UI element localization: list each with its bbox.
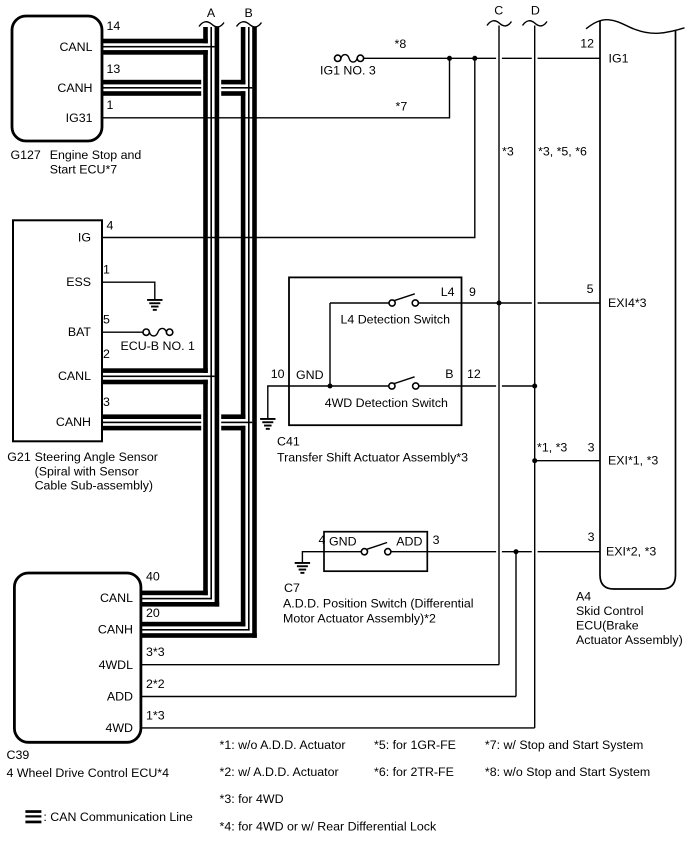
wire G127 CANH to bus B (triple line, crossing bus A) (102, 80, 252, 96)
wire bus A CANL (triple line) (203, 27, 219, 607)
footnote *8 (485, 765, 650, 779)
wire C39 CANL to bus A (triple line corner) (141, 591, 219, 607)
pin B label (445, 367, 453, 381)
connector G21 box (13, 220, 102, 441)
svg-text:ADD: ADD (107, 690, 133, 704)
svg-text:A4: A4 (576, 589, 591, 603)
svg-text:14: 14 (107, 19, 121, 33)
svg-text:3*3: 3*3 (146, 645, 165, 659)
svg-text:Engine Stop and: Engine Stop and (50, 148, 142, 162)
svg-text:*5: for 1GR-FE: *5: for 1GR-FE (374, 738, 456, 752)
wire IG from G21 pin 4 (102, 58, 475, 237)
junction dot L4 wire on C (497, 301, 502, 306)
footnote *6 (374, 765, 454, 779)
svg-text:*8: *8 (395, 37, 407, 51)
wire G127 CANL to bus A (triple line) (102, 39, 215, 55)
wire G21 CANL to bus A (triple line) (102, 368, 215, 384)
node B label (244, 6, 252, 20)
wire C39 CANH to bus B (triple line corner) (141, 622, 257, 638)
footnote *3 (220, 792, 284, 806)
svg-text:ECU-B NO. 1: ECU-B NO. 1 (121, 339, 195, 353)
pin 4WD label C39 (105, 721, 133, 735)
pin 40 label (146, 570, 160, 584)
svg-text:CANL: CANL (100, 591, 133, 605)
pin 1 label G127 (107, 98, 114, 112)
pin 12 label C41 (467, 367, 481, 381)
pin CANH label C39 (98, 622, 133, 636)
label C7 A.D.D. Position Switch (283, 581, 474, 626)
svg-text:4: 4 (107, 219, 114, 233)
label G127 Engine Stop and Start ECU*7 (11, 148, 142, 176)
svg-text:GND: GND (329, 535, 357, 549)
svg-text:ESS: ESS (66, 275, 91, 289)
footnote *5 (374, 738, 456, 752)
label L4 Detection Switch (341, 312, 451, 326)
connector G127 box (12, 16, 102, 141)
pin 12 label A4 (580, 37, 594, 51)
fuse IG1 NO.3 (335, 55, 364, 63)
pin 2 label G21 (103, 347, 110, 361)
svg-text:13: 13 (107, 62, 121, 76)
pin BAT label G21 (68, 325, 92, 339)
svg-text:1: 1 (103, 263, 110, 277)
svg-text:(Spiral with Sensor: (Spiral with Sensor (35, 464, 139, 478)
pin CANH label G21 (56, 415, 91, 429)
svg-text:L4 Detection Switch: L4 Detection Switch (341, 312, 451, 326)
svg-text:4WD: 4WD (105, 721, 133, 735)
footnote *4 (220, 820, 437, 834)
switch ADD position (302, 543, 600, 563)
wire GND C41 to ground (268, 386, 389, 418)
pin EXI*1, *3 label A4 (608, 454, 658, 468)
svg-text:12: 12 (580, 37, 594, 51)
svg-text:EXI*1, *3: EXI*1, *3 (608, 454, 658, 468)
junction dot B wire on D (532, 384, 537, 389)
node C label (494, 3, 503, 17)
ground ESS (147, 299, 162, 311)
svg-text:C39: C39 (7, 748, 30, 762)
pin GND label C41 (296, 368, 324, 382)
wire EXI*1 from D to A4 pin 3 (535, 460, 600, 462)
svg-text:IG1 NO. 3: IG1 NO. 3 (320, 64, 376, 78)
footnote *2 (220, 765, 339, 779)
wire bus B CANH (triple line) (241, 27, 257, 638)
pin ESS label G21 (66, 275, 91, 289)
pin IG31 label G127 (66, 111, 93, 125)
pin IG label G21 (78, 231, 91, 245)
pin ADD label C7 (396, 535, 422, 549)
label A4 Skid Control ECU (576, 589, 683, 647)
node A label (207, 6, 216, 20)
svg-text:L4: L4 (441, 285, 455, 299)
pin EXI*2, *3 label A4 (606, 545, 656, 559)
pin CANL label C39 (100, 591, 133, 605)
svg-text:D: D (531, 3, 540, 17)
svg-text:C41: C41 (277, 435, 300, 449)
label *8 (395, 37, 407, 51)
wire BAT to fuse (102, 331, 143, 333)
svg-text:Skid Control: Skid Control (576, 604, 644, 618)
footnote *1 (220, 738, 346, 752)
svg-text:: CAN Communication Line: : CAN Communication Line (43, 810, 193, 824)
svg-text:12: 12 (467, 367, 481, 381)
pin 1 label G21 (103, 263, 110, 277)
wire ADD riser vertical (515, 552, 517, 697)
junction dot ADD riser (514, 549, 519, 554)
svg-text:G127: G127 (11, 148, 41, 162)
label G21 Steering Angle Sensor (7, 450, 158, 493)
wire G21 CANH to bus B (triple line, crossing bus A) (102, 414, 252, 430)
svg-text:IG31: IG31 (66, 111, 93, 125)
svg-text:1*3: 1*3 (146, 709, 165, 723)
svg-text:CANL: CANL (59, 40, 92, 54)
footnote *7 (485, 738, 643, 752)
node D label (531, 3, 540, 17)
switch L4 detection (330, 294, 600, 306)
svg-text:*1, *3: *1, *3 (537, 441, 567, 455)
junction dot IG31 riser (447, 56, 452, 61)
svg-text:A: A (207, 6, 216, 20)
junction dot EXI*1 on D (532, 458, 537, 463)
pin EXI4*3 label A4 (608, 296, 647, 310)
svg-text:IG1: IG1 (609, 51, 629, 65)
svg-text:CANL: CANL (58, 369, 91, 383)
svg-text:IG: IG (78, 231, 91, 245)
svg-text:Motor Actuator Assembly)*2: Motor Actuator Assembly)*2 (283, 612, 436, 626)
wire 4WDL to C (141, 664, 499, 666)
pin CANL label G21 (58, 369, 91, 383)
connector C7 box (324, 532, 427, 572)
connector C39 box (14, 573, 140, 742)
wire IG1 fuse to A4 pin 12 (gaps at C and D) (364, 57, 600, 59)
svg-text:Cable Sub-assembly): Cable Sub-assembly) (35, 479, 153, 493)
svg-text:B: B (244, 6, 252, 20)
svg-text:4: 4 (319, 533, 326, 547)
legend CAN communication line symbol (25, 810, 193, 824)
pin GND label C7 (329, 535, 357, 549)
svg-text:*3, *5, *6: *3, *5, *6 (538, 145, 587, 159)
svg-text:9: 9 (469, 285, 476, 299)
svg-text:G21: G21 (7, 450, 31, 464)
pin CANH label G127 (57, 81, 92, 95)
wire IG31 *7 from G127 pin 1 (102, 58, 450, 118)
svg-text:5: 5 (103, 312, 110, 326)
svg-text:EXI*2, *3: EXI*2, *3 (606, 545, 656, 559)
label *3, *5, *6 on wire D (538, 145, 587, 159)
label 4WD Detection Switch (325, 396, 448, 410)
pin 4WDL label (99, 658, 134, 672)
wire ADD to riser (141, 696, 516, 698)
switch 4WD detection (389, 377, 535, 389)
svg-text:3: 3 (103, 395, 110, 409)
pin 4 label C7 (319, 533, 326, 547)
svg-text:GND: GND (296, 368, 324, 382)
svg-text:5: 5 (587, 282, 594, 296)
label *7 (396, 100, 408, 114)
svg-text:Transfer Shift Actuator Assemb: Transfer Shift Actuator Assembly*3 (277, 451, 468, 465)
pin 10 label (271, 367, 285, 381)
junction dot IG riser (472, 56, 477, 61)
svg-text:3: 3 (433, 533, 440, 547)
svg-text:1: 1 (107, 98, 114, 112)
break squiggle bus A (199, 22, 224, 27)
svg-text:4WD Detection Switch: 4WD Detection Switch (325, 396, 448, 410)
pin 3 label EXI*2 (588, 530, 595, 544)
pin CANL label G127 (59, 40, 92, 54)
svg-text:*7: w/ Stop and Start System: *7: w/ Stop and Start System (485, 738, 643, 752)
svg-text:4 Wheel Drive Control ECU*4: 4 Wheel Drive Control ECU*4 (7, 766, 170, 780)
break squiggle wire C (487, 21, 512, 26)
pin ADD label C39 (107, 690, 133, 704)
svg-text:*7: *7 (396, 100, 408, 114)
svg-text:2*2: 2*2 (146, 677, 165, 691)
svg-text:Steering Angle Sensor: Steering Angle Sensor (35, 450, 158, 464)
pin 3 label G21 (103, 395, 110, 409)
pin L4 label (441, 285, 455, 299)
pin 2*2 label (146, 677, 165, 691)
svg-text:CANH: CANH (57, 81, 92, 95)
svg-text:C: C (494, 3, 503, 17)
svg-text:*3: *3 (502, 145, 514, 159)
fuse ECU-B NO.1 (143, 328, 173, 336)
ground C41 (260, 418, 275, 430)
pin 9 label (469, 285, 476, 299)
svg-text:3: 3 (588, 530, 595, 544)
svg-text:*4: for 4WD or w/ Rear Differe: *4: for 4WD or w/ Rear Differential Lock (220, 820, 437, 834)
label ECU-B NO. 1 (121, 339, 195, 353)
svg-text:3: 3 (588, 441, 595, 455)
wire ESS to ground (102, 282, 155, 299)
svg-text:*2: w/ A.D.D. Actuator: *2: w/ A.D.D. Actuator (220, 765, 339, 779)
svg-text:B: B (445, 367, 453, 381)
svg-text:*6: for 2TR-FE: *6: for 2TR-FE (374, 765, 454, 779)
wire D vertical (534, 26, 536, 728)
pin 13 label (107, 62, 121, 76)
svg-text:EXI4*3: EXI4*3 (608, 296, 647, 310)
svg-text:CANH: CANH (56, 415, 91, 429)
svg-text:BAT: BAT (68, 325, 92, 339)
svg-text:C7: C7 (284, 581, 300, 595)
connector A4 box (wavy top) (586, 20, 685, 589)
label C39 4 Wheel Drive Control ECU*4 (7, 748, 170, 780)
pin IG1 label A4 (609, 51, 629, 65)
svg-text:ADD: ADD (396, 535, 422, 549)
svg-text:A.D.D. Position Switch (Differ: A.D.D. Position Switch (Differential (283, 596, 474, 610)
svg-text:10: 10 (271, 367, 285, 381)
label *3 on wire C (502, 145, 514, 159)
svg-text:*1: w/o A.D.D. Actuator: *1: w/o A.D.D. Actuator (220, 738, 346, 752)
svg-text:*8: w/o Stop and Start System: *8: w/o Stop and Start System (485, 765, 650, 779)
label IG1 NO. 3 (320, 64, 376, 78)
pin 4 label G21 (107, 219, 114, 233)
wire 4WD to D (141, 727, 535, 729)
label C41 Transfer Shift Actuator Assembly*3 (277, 435, 468, 465)
wire C vertical (498, 26, 500, 665)
pin 20 label (146, 606, 160, 620)
svg-text:CANH: CANH (98, 622, 133, 636)
svg-text:20: 20 (146, 606, 160, 620)
pin 1*3 label (146, 709, 165, 723)
svg-text:ECU(Brake: ECU(Brake (576, 619, 639, 633)
pin 14 label (107, 19, 121, 33)
pin 3*3 label (146, 645, 165, 659)
svg-text:*3: for 4WD: *3: for 4WD (220, 792, 284, 806)
svg-text:2: 2 (103, 347, 110, 361)
pin 5 label A4 (587, 282, 594, 296)
svg-text:Start ECU*7: Start ECU*7 (50, 162, 118, 176)
svg-text:4WDL: 4WDL (99, 658, 134, 672)
ground C7 (295, 562, 310, 574)
svg-text:Actuator Assembly): Actuator Assembly) (576, 633, 683, 647)
junction dot GND branch (328, 384, 333, 389)
break squiggle bus B (237, 22, 262, 27)
pin 3 label EXI*1 (588, 441, 595, 455)
pin 3 label C7 (433, 533, 440, 547)
svg-text:40: 40 (146, 570, 160, 584)
connector C41 box (289, 277, 462, 425)
wire L4 branch down (329, 303, 331, 386)
pin 5 label G21 (103, 312, 110, 326)
label *1, *3 (537, 441, 567, 455)
break squiggle wire D (523, 21, 548, 26)
